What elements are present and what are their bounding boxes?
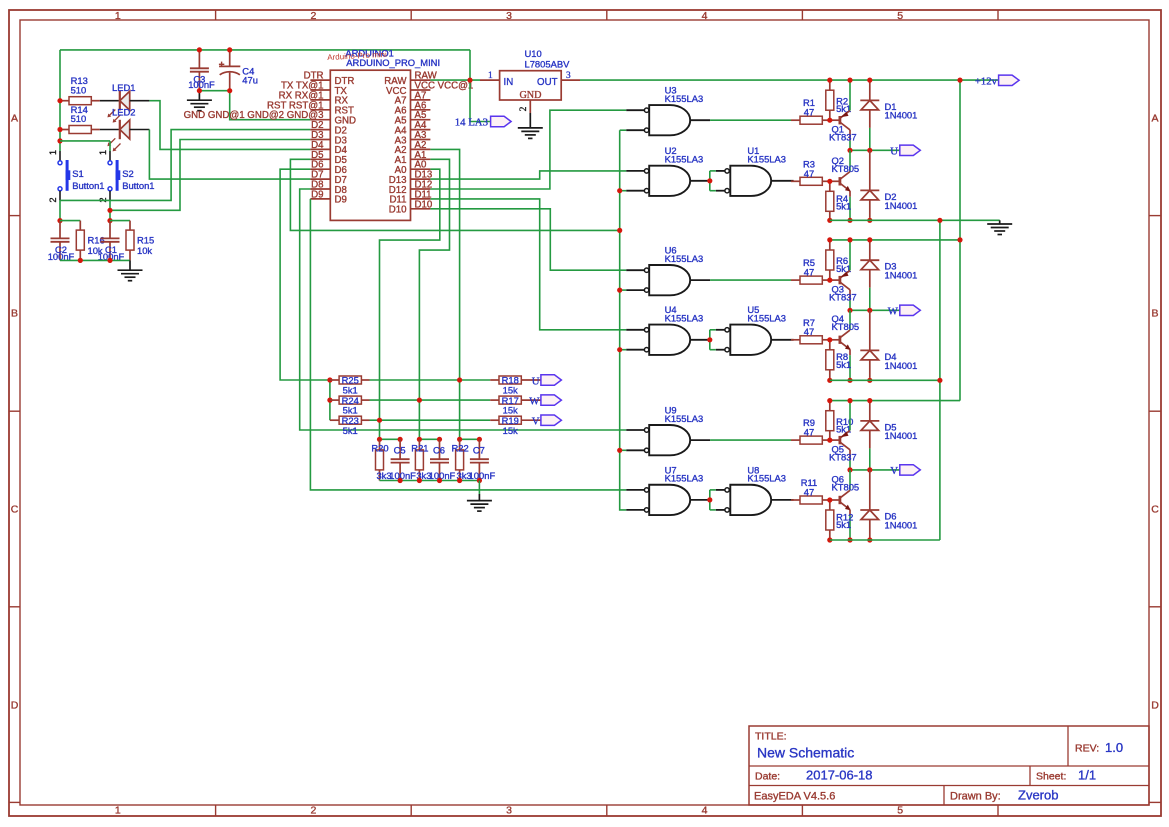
svg-text:5k1: 5k1 [836, 359, 851, 370]
wire LED1 to D4 pin [130, 100, 150, 102]
wire U output node [850, 149, 900, 151]
svg-text:3: 3 [506, 10, 512, 22]
svg-text:S1: S1 [72, 168, 83, 179]
wire U2 output to U1 inputs [690, 180, 708, 182]
svg-text:2: 2 [519, 106, 529, 111]
resistor R9 [791, 439, 800, 441]
svg-text:K155LA3: K155LA3 [665, 153, 704, 164]
pin D11 (right) [411, 198, 431, 200]
svg-text:1/1: 1/1 [1078, 768, 1096, 783]
svg-text:New Schematic: New Schematic [757, 745, 854, 761]
transistor Q4 KT805 [830, 339, 840, 341]
wire U3 output to R1 [690, 119, 710, 121]
wire U5 output to R7 [771, 339, 793, 341]
wire +5V top rail [60, 49, 470, 51]
wire +5V rail down to 14 LA3 flag [470, 50, 491, 122]
wire RAW to U10 IN [430, 79, 480, 81]
svg-text:TITLE:: TITLE: [755, 731, 787, 743]
svg-text:47: 47 [804, 427, 814, 438]
svg-text:U: U [532, 375, 540, 387]
svg-text:3: 3 [506, 805, 512, 817]
diode D3 1N4001 [869, 240, 871, 260]
wire U7 output to U8 inputs [690, 499, 708, 501]
wire A0 to R20/C5 [380, 169, 440, 439]
pin A1 (right) [411, 158, 431, 160]
pin DTR (left) [310, 79, 330, 81]
wire D11 to U4 input 1 [430, 199, 626, 330]
svg-text:K155LA3: K155LA3 [747, 312, 786, 323]
pin D12 (right) [411, 188, 431, 190]
resistor R17 15k [490, 399, 499, 401]
resistor R5 [791, 279, 800, 281]
ground at RC block [478, 481, 480, 495]
svg-text:R21: R21 [411, 443, 428, 454]
svg-text:100nF: 100nF [469, 470, 496, 481]
resistor R3 [791, 180, 800, 182]
svg-text:S2: S2 [122, 168, 133, 179]
pin A3 (right) [411, 139, 431, 141]
wire ground riser between stage rails [939, 220, 941, 540]
svg-text:510: 510 [71, 84, 87, 95]
diode D4 1N4001 [869, 310, 871, 350]
wire U4 output to U5 inputs [690, 339, 708, 341]
pin D8 (left) [310, 188, 330, 190]
svg-text:1N4001: 1N4001 [885, 430, 918, 441]
svg-text:B: B [11, 308, 18, 320]
svg-text:2: 2 [310, 10, 316, 22]
svg-text:100nF: 100nF [429, 470, 456, 481]
svg-text:ARDUINO_PRO_MINI: ARDUINO_PRO_MINI [346, 57, 440, 68]
svg-text:5: 5 [897, 10, 903, 22]
nand gate U3 K155LA3 [626, 109, 645, 111]
svg-text:2017-06-18: 2017-06-18 [806, 768, 873, 783]
wire LED2 to D7 pin [130, 129, 150, 131]
transistor Q5 KT837 [830, 439, 840, 441]
svg-text:W: W [888, 306, 899, 318]
pin D10 (right) [411, 208, 431, 210]
svg-text:4: 4 [702, 10, 708, 22]
pin A6 (right) [411, 109, 431, 111]
svg-text:5: 5 [897, 805, 903, 817]
svg-text:K155LA3: K155LA3 [665, 312, 704, 323]
pin D3 (left) [310, 139, 330, 141]
svg-text:47: 47 [804, 168, 814, 179]
svg-text:A: A [11, 113, 18, 125]
svg-text:GND GND@1 GND@2 GND@3: GND GND@1 GND@2 GND@3 [184, 110, 324, 121]
nand gate U8 K155LA3 [716, 489, 725, 491]
pin D13 (right) [411, 178, 431, 180]
wire U1 output to R3 [771, 180, 793, 182]
junction dots top [197, 47, 202, 52]
svg-text:A: A [1151, 113, 1158, 125]
svg-text:KT805: KT805 [832, 163, 860, 174]
svg-text:+12v: +12v [975, 75, 998, 87]
svg-text:Button1: Button1 [122, 180, 154, 191]
svg-text:V: V [532, 416, 540, 428]
pin A7 (right) [411, 99, 431, 101]
svg-text:1: 1 [48, 150, 58, 155]
capacitor C3 [198, 50, 200, 68]
resistor R20 3k3 [379, 439, 381, 450]
wire R13 to LED1 [100, 100, 119, 102]
svg-text:1N4001: 1N4001 [885, 110, 918, 121]
resistor R4 [829, 181, 831, 191]
title block [749, 726, 1149, 805]
svg-text:100nF: 100nF [389, 470, 416, 481]
svg-text:OUT: OUT [537, 77, 558, 88]
svg-text:K155LA3: K155LA3 [747, 153, 786, 164]
svg-text:KT805: KT805 [832, 321, 860, 332]
wire R20/C5 top node [380, 438, 401, 440]
svg-text:KT837: KT837 [829, 132, 857, 143]
resistor R22 3k3 [459, 439, 461, 450]
nand gate U6 K155LA3 [626, 269, 645, 271]
svg-text:C6: C6 [433, 444, 445, 455]
svg-text:R20: R20 [371, 443, 388, 454]
wire A2 to R22/C7 [430, 149, 459, 439]
pin A4 (right) [411, 129, 431, 131]
pin A2 (right) [411, 148, 431, 150]
svg-text:C: C [1151, 504, 1159, 516]
wire D5 to gates second inputs bus [290, 159, 619, 230]
wire +12V rail 3 [830, 400, 960, 402]
svg-text:15k: 15k [503, 425, 518, 436]
svg-text:R16: R16 [88, 235, 105, 246]
svg-text:LED2: LED2 [112, 106, 135, 117]
svg-text:1N4001: 1N4001 [885, 200, 918, 211]
voltage regulator U10 L7805ABV [480, 79, 500, 81]
svg-text:LED1: LED1 [112, 82, 135, 93]
svg-text:K155LA3: K155LA3 [665, 253, 704, 264]
svg-text:5k1: 5k1 [343, 425, 358, 436]
svg-text:EasyEDA V4.5.6: EasyEDA V4.5.6 [754, 790, 835, 802]
capacitor C7 100nF [478, 439, 480, 459]
ground at C3 [198, 91, 200, 100]
svg-text:D10: D10 [415, 199, 433, 210]
net flag U [900, 145, 921, 155]
pin VCC (right) [411, 89, 431, 91]
pushbutton S2 [109, 141, 111, 151]
wire W output node [850, 309, 900, 311]
svg-text:W: W [529, 395, 540, 407]
svg-text:K155LA3: K155LA3 [747, 473, 786, 484]
wire R22/C7 top node [460, 438, 480, 440]
wire U9 output to R9 [690, 439, 710, 441]
resistor R19 15k [490, 419, 499, 421]
diode D1 1N4001 [869, 80, 871, 100]
wire second-input bus vertical [620, 130, 627, 510]
capacitor C2 [57, 218, 62, 223]
svg-text:47: 47 [804, 267, 814, 278]
net flag W [900, 305, 921, 315]
svg-text:1N4001: 1N4001 [885, 520, 918, 531]
svg-text:3: 3 [566, 71, 571, 81]
net flag V [900, 465, 921, 475]
transistor Q3 KT837 [830, 279, 840, 281]
svg-text:D9: D9 [311, 189, 323, 200]
wire V output node [850, 469, 900, 471]
resistor R16 [60, 220, 80, 222]
svg-text:1: 1 [115, 805, 121, 817]
svg-text:R15: R15 [137, 235, 154, 246]
nand gate U7 K155LA3 [626, 489, 645, 491]
transistor Q1 KT837 [830, 119, 840, 121]
pin RX (left) [310, 99, 330, 101]
capacitor C1 [107, 218, 112, 223]
svg-text:4: 4 [702, 805, 708, 817]
nand gate U5 K155LA3 [716, 329, 725, 331]
pin 2 of U10 to ground [529, 100, 531, 113]
svg-text:14 LA3: 14 LA3 [455, 117, 488, 129]
wire left column [59, 50, 61, 151]
svg-text:KT837: KT837 [829, 291, 857, 302]
svg-text:2: 2 [48, 197, 58, 202]
net flag V (divider) [541, 415, 562, 425]
diode D2 1N4001 [869, 150, 871, 190]
wire +12V distribution drop [959, 80, 961, 401]
resistor R11 [791, 499, 800, 501]
ic ARDUINO1 ARDUINO_PRO_MINI [330, 70, 410, 220]
wire R25 to R18 [370, 379, 491, 381]
svg-text:5k1: 5k1 [836, 201, 851, 212]
diode D5 1N4001 [869, 401, 871, 421]
svg-text:47u: 47u [242, 74, 258, 85]
svg-text:D: D [11, 700, 19, 712]
svg-text:47: 47 [804, 326, 814, 337]
pin RST (left) [310, 109, 330, 111]
nand gate U9 K155LA3 [626, 429, 645, 431]
junction dots left column [57, 98, 62, 103]
pin A0 (right) [411, 168, 431, 170]
resistor R23 5k1 [330, 419, 339, 421]
svg-text:1: 1 [488, 71, 493, 81]
svg-text:1.0: 1.0 [1105, 740, 1123, 755]
pin GND (left) [310, 119, 330, 121]
svg-text:K155LA3: K155LA3 [665, 413, 704, 424]
svg-text:47: 47 [804, 107, 814, 118]
svg-text:V: V [890, 465, 898, 477]
svg-text:5k1: 5k1 [836, 424, 851, 435]
svg-text:REV:: REV: [1075, 743, 1099, 755]
svg-text:5k1: 5k1 [836, 103, 851, 114]
wire A1 to R21/C6 [419, 159, 449, 439]
diode D6 1N4001 [869, 470, 871, 510]
wire stage W bottom rail [830, 379, 940, 381]
pin D5 (left) [310, 158, 330, 160]
svg-text:D9: D9 [335, 195, 347, 206]
svg-text:10k: 10k [137, 245, 152, 256]
resistor R1 [791, 119, 800, 121]
svg-text:U: U [890, 146, 898, 158]
svg-text:K155LA3: K155LA3 [665, 93, 704, 104]
svg-text:2: 2 [310, 805, 316, 817]
wire stage U bottom rail to ground [830, 219, 1000, 221]
wire R25/R24/R23 common [329, 380, 331, 420]
svg-text:1N4001: 1N4001 [885, 269, 918, 280]
wire R14 to LED2 [100, 129, 119, 131]
svg-text:L7805ABV: L7805ABV [525, 58, 571, 69]
nand gate U2 K155LA3 [626, 170, 645, 172]
svg-text:1: 1 [115, 10, 121, 22]
wire D6 to R23/R24/R25 common [280, 169, 330, 380]
wire stage V bottom rail [830, 539, 940, 541]
resistor R10 [829, 401, 831, 411]
svg-text:D10: D10 [389, 205, 407, 216]
svg-text:D: D [1151, 700, 1159, 712]
svg-text:Date:: Date: [755, 771, 780, 783]
wire D12 to U3 input 1 [430, 110, 626, 189]
wire D13 to U2 input 1 [430, 171, 626, 179]
svg-text:C: C [11, 504, 19, 516]
svg-text:100nF: 100nF [188, 79, 215, 90]
transistor Q2 KT805 [830, 180, 840, 182]
capacitor C4 polarized [229, 50, 231, 67]
LED LED2 [119, 120, 121, 139]
wire branch to S2 [60, 140, 110, 142]
resistor R13 [60, 100, 69, 102]
wire S2 to D3 pin [109, 200, 111, 220]
net flag W (divider) [541, 395, 562, 405]
svg-text:5k1: 5k1 [836, 519, 851, 530]
wire U8 output to R11 [771, 499, 793, 501]
wire D9 to U7 input [310, 199, 626, 490]
svg-text:KT837: KT837 [829, 451, 857, 462]
wire R23 to R19 [370, 419, 491, 421]
svg-text:1N4001: 1N4001 [885, 360, 918, 371]
wire +12V rail 2 [830, 239, 960, 241]
capacitor C5 100nF [399, 439, 401, 459]
pushbutton S1 [59, 151, 61, 161]
transistor Q6 KT805 [830, 499, 840, 501]
capacitor C6 100nF [439, 439, 441, 459]
svg-text:Button1: Button1 [72, 180, 104, 191]
resistor R15 [110, 220, 130, 222]
wire C3-C4 ground node to GND pin [199, 91, 310, 120]
svg-text:Drawn By:: Drawn By: [950, 790, 1001, 802]
net flag U (divider) [541, 375, 562, 385]
ground at R15 [129, 260, 131, 270]
wire S1 to D2 pin [60, 130, 310, 201]
svg-text:K155LA3: K155LA3 [665, 473, 704, 484]
resistor R24 5k1 [330, 399, 339, 401]
pin RAW (right) [411, 79, 431, 81]
wire RC block bottom rail [380, 480, 480, 482]
svg-text:47: 47 [804, 487, 814, 498]
wire D8 to U9 input [300, 189, 627, 430]
svg-text:510: 510 [71, 113, 87, 124]
svg-text:B: B [1151, 308, 1158, 320]
wire +12V rail from U10 OUT [580, 79, 999, 81]
nand gate U4 K155LA3 [626, 329, 645, 331]
resistor R7 [791, 339, 800, 341]
pin D9 (left) [310, 198, 330, 200]
pin D4 (left) [310, 148, 330, 150]
svg-text:GND: GND [519, 90, 541, 101]
pin D7 (left) [310, 178, 330, 180]
svg-text:KT805: KT805 [832, 482, 860, 493]
nand gate U1 K155LA3 [716, 170, 725, 172]
ground at output stages [999, 220, 1001, 224]
svg-text:C5: C5 [394, 444, 406, 455]
resistor R6 [829, 240, 831, 250]
LED LED1 [119, 91, 121, 110]
resistor R2 [829, 80, 831, 90]
resistor R21 3k3 [418, 439, 420, 450]
wire U6 output to R5 [690, 279, 710, 281]
resistor R12 [829, 500, 831, 510]
resistor R25 5k1 [330, 379, 339, 381]
svg-text:R22: R22 [451, 443, 468, 454]
wire D10 to U6 input 1 [430, 209, 626, 270]
wire R24 to R17 [370, 399, 491, 401]
pin TX (left) [310, 89, 330, 91]
svg-text:1: 1 [98, 150, 108, 155]
wire R21/C6 top node [419, 438, 439, 440]
wire bottom rail left block [60, 259, 130, 261]
pin D2 (left) [310, 129, 330, 131]
svg-text:Zverob: Zverob [1018, 788, 1058, 803]
svg-text:Sheet:: Sheet: [1036, 771, 1066, 783]
svg-text:C7: C7 [473, 444, 485, 455]
pin D6 (left) [310, 168, 330, 170]
resistor R14 [60, 129, 69, 131]
svg-text:IN: IN [504, 77, 514, 88]
resistor R18 15k [490, 379, 499, 381]
pin A5 (right) [411, 119, 431, 121]
svg-text:U10: U10 [525, 48, 542, 59]
resistor R8 [829, 340, 831, 350]
